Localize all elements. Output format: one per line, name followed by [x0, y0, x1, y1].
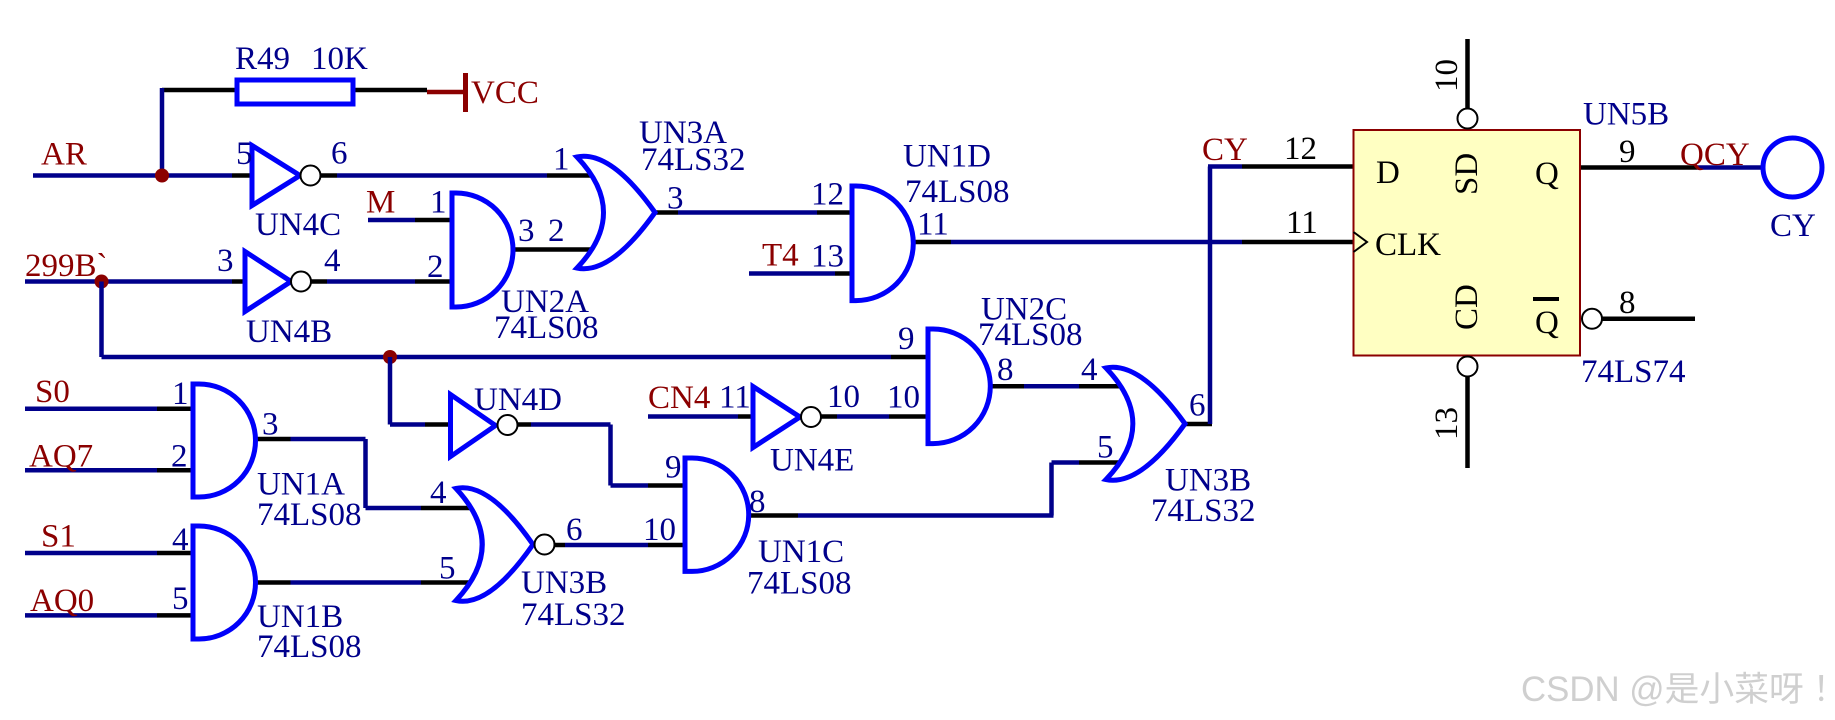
bubble UN4C [301, 166, 321, 186]
wire junction down to UN4D [388, 357, 393, 425]
wire UN1A out to UN3B [366, 506, 422, 511]
wire UN4B out [327, 279, 415, 284]
svg-text:Q: Q [1535, 305, 1559, 341]
pin stub UN2A pin1 [415, 218, 458, 223]
svg-text:6: 6 [566, 512, 583, 548]
pin stub UN1D pin12 [817, 210, 858, 215]
wire UN2A pin3 to UN3A pin2 [513, 247, 612, 252]
svg-text:3: 3 [262, 407, 279, 443]
svg-text:74LS08: 74LS08 [494, 310, 599, 346]
wire resistor right (black) [353, 88, 427, 93]
watermark glyph 菜 [1735, 672, 1767, 704]
svg-text:UN4D: UN4D [474, 382, 562, 418]
svg-text:2: 2 [427, 249, 444, 285]
wire to VCC (dark red) [427, 90, 464, 95]
svg-text:5: 5 [172, 581, 189, 617]
pin stub UN3B pin6 [1185, 422, 1212, 427]
svg-text:74LS08: 74LS08 [257, 629, 362, 665]
pin stub UN4E out [821, 414, 837, 419]
svg-text:10: 10 [643, 512, 676, 548]
Qbar overline [1533, 297, 1559, 301]
svg-text:CY: CY [1770, 208, 1816, 244]
junction AR-resistor [155, 169, 169, 183]
svg-text:13: 13 [811, 239, 844, 275]
svg-text:T4: T4 [762, 238, 799, 274]
svg-text:CY: CY [1202, 132, 1248, 168]
flip-flop UN5B 74LS74 body [1354, 130, 1581, 356]
wire CY vertical [1208, 167, 1213, 425]
svg-text:11: 11 [719, 380, 751, 416]
pin stub UN2C pin8 [990, 384, 1024, 389]
svg-text:74LS08: 74LS08 [905, 174, 1010, 210]
wire UN1C out right [798, 513, 1054, 518]
bubble UN4D [498, 415, 518, 435]
and-gate UN2A [452, 193, 513, 307]
pin stub UN1B pin4 [157, 551, 203, 556]
svg-text:UN5B: UN5B [1583, 97, 1669, 133]
svg-text:12: 12 [811, 177, 844, 213]
wire UN1A out down [363, 439, 368, 508]
wire FF CD pin bottom [1465, 377, 1470, 468]
pin stub UN1A pin3 [256, 437, 291, 442]
pin stub FF CLK pin11 [1242, 240, 1360, 245]
svg-text:AQ7: AQ7 [29, 439, 93, 475]
wire S0 [25, 406, 157, 411]
svg-text:3: 3 [217, 243, 234, 279]
svg-text:QCY: QCY [1680, 137, 1750, 173]
and-gate UN1A [193, 384, 256, 497]
wire AR [33, 173, 232, 178]
wire AQ0 [25, 613, 157, 618]
svg-text:10: 10 [887, 380, 920, 416]
bubble UN4E [801, 407, 821, 427]
svg-text:4: 4 [1081, 352, 1098, 388]
wire CY to D [1208, 164, 1242, 169]
or-gate UN3B left [456, 488, 533, 601]
svg-text:4: 4 [172, 522, 189, 558]
svg-text:3: 3 [667, 181, 684, 217]
svg-text:CLK: CLK [1375, 227, 1441, 263]
wire vertical 299B` down [99, 282, 104, 358]
wire long horizontal to UN2C [102, 355, 892, 360]
wire to UN4D input [390, 422, 425, 427]
svg-text:1: 1 [430, 185, 447, 221]
svg-text:5: 5 [439, 551, 456, 587]
pin stub UN1D pin11 [913, 240, 951, 245]
wire UN1C out to UN3B [1052, 460, 1080, 465]
wire resistor left (black) [162, 88, 237, 93]
port CY circle [1763, 138, 1822, 197]
wire vertical AR junction to resistor [160, 88, 165, 173]
resistor R49 [237, 80, 353, 104]
svg-text:9: 9 [898, 321, 915, 357]
pin stub UN1C pin10 [648, 543, 694, 548]
wire vertical UN1C out up [1049, 463, 1054, 516]
svg-text:8: 8 [997, 352, 1014, 388]
svg-text:74LS08: 74LS08 [978, 317, 1083, 353]
pin stub UN1B pin6 [256, 580, 291, 585]
svg-text:UN4C: UN4C [255, 207, 341, 243]
svg-text:6: 6 [331, 136, 348, 172]
svg-text:1: 1 [553, 142, 570, 178]
or-gate UN3A [577, 156, 655, 268]
pin stub UN3B left pin5 [421, 580, 492, 585]
svg-text:9: 9 [1619, 134, 1636, 170]
svg-text:3: 3 [518, 213, 535, 249]
svg-text:R49: R49 [235, 41, 290, 77]
svg-text:AR: AR [41, 137, 87, 173]
wire S1 [25, 551, 157, 556]
pin stub UN3A pin3 [655, 210, 678, 215]
svg-text:74LS32: 74LS32 [1151, 493, 1256, 529]
pin stub UN3B left pin6 [555, 543, 566, 548]
pin stub UN2A pin2 [415, 279, 458, 284]
svg-text:10: 10 [827, 379, 860, 415]
svg-text:11: 11 [917, 207, 949, 243]
wire UN3A out to UN1D [678, 210, 817, 215]
inverter UN4B [245, 252, 291, 312]
svg-text:10K: 10K [311, 41, 368, 77]
svg-text:2: 2 [548, 213, 565, 249]
pin stub FF D pin12 [1242, 164, 1360, 169]
pin stub UN1A pin2 [157, 468, 203, 473]
svg-text:10: 10 [1429, 59, 1465, 92]
svg-text:8: 8 [1619, 285, 1636, 321]
pin stub UN3B pin4 [1079, 384, 1140, 389]
svg-text:2: 2 [171, 439, 188, 475]
bubble FF CD [1458, 357, 1478, 377]
svg-text:VCC: VCC [471, 75, 539, 111]
watermark glyph 是 [1666, 673, 1698, 704]
pin stub UN3B pin5 [1079, 460, 1140, 465]
inverter UN4D [451, 395, 496, 457]
svg-text:74LS74: 74LS74 [1581, 354, 1686, 390]
svg-text:299B`: 299B` [25, 248, 108, 284]
wire AQ7 [25, 468, 157, 473]
svg-text:UN3B: UN3B [521, 565, 607, 601]
wire UN1D out to CLK [951, 240, 1242, 245]
svg-text:4: 4 [430, 475, 447, 511]
pin stub UN1C pin9 [648, 483, 694, 488]
pin stub FF Q pin9 [1580, 165, 1697, 170]
svg-text:8: 8 [749, 484, 766, 520]
svg-text:UN4B: UN4B [246, 314, 332, 350]
svg-text:M: M [366, 185, 395, 221]
svg-text:SD: SD [1449, 153, 1485, 195]
pin stub UN4D in [425, 422, 458, 427]
wire M [368, 218, 415, 223]
wire UN1B out [291, 580, 422, 585]
svg-text:11: 11 [1286, 205, 1318, 241]
pin stub UN1A pin1 [157, 406, 203, 411]
and-gate UN1B [193, 526, 256, 639]
wire QCY to CY port [1697, 165, 1763, 170]
watermark glyph 呀 [1772, 673, 1803, 703]
svg-text:UN1D: UN1D [903, 139, 991, 175]
svg-text:12: 12 [1284, 131, 1317, 167]
pin stub UN4B pin3 [232, 279, 249, 284]
bubble FF SD [1458, 109, 1478, 129]
pin stub UN1B pin5 [157, 613, 203, 618]
svg-text:4: 4 [324, 243, 341, 279]
wire UN4D out right [531, 422, 611, 427]
wire UN1A out right [291, 437, 366, 442]
svg-text:9: 9 [665, 450, 682, 486]
svg-text:CD: CD [1449, 284, 1485, 330]
pin stub UN4B pin4 [311, 279, 327, 284]
power symbol VCC bar [463, 73, 468, 112]
pin stub UN1C pin8 [749, 513, 798, 518]
wire FF Qbar pin8 [1603, 316, 1696, 321]
wire UN4D out to UN1C [611, 483, 649, 488]
inverter UN4C [252, 146, 300, 206]
svg-text:CN4: CN4 [648, 380, 710, 416]
inverter UN4E [753, 387, 800, 448]
svg-text:74LS32: 74LS32 [521, 597, 626, 633]
svg-text:D: D [1376, 155, 1400, 191]
or-gate UN3B right [1106, 367, 1185, 480]
wire UN4D out down [608, 425, 613, 486]
wire UN2C out [1024, 384, 1079, 389]
wire FF SD pin top [1465, 39, 1470, 109]
pin stub UN4E pin11 [738, 414, 760, 419]
svg-text:74LS08: 74LS08 [257, 497, 362, 533]
watermark glyph 小 [1701, 672, 1734, 704]
svg-text:S0: S0 [35, 374, 70, 410]
svg-text:1: 1 [172, 376, 189, 412]
svg-text:S1: S1 [41, 519, 76, 555]
svg-text:5: 5 [236, 136, 253, 172]
and-gate UN1C [685, 458, 749, 571]
svg-text:74LS32: 74LS32 [641, 142, 746, 178]
bubble FF Qbar [1582, 309, 1602, 329]
pin stub UN1D pin13 [835, 271, 858, 276]
wire T4 [749, 271, 835, 276]
wire CN4 [648, 414, 738, 419]
pin stub UN2C pin10 [889, 414, 938, 419]
pin stub UN4D out [517, 422, 531, 427]
svg-text:6: 6 [1189, 388, 1206, 424]
pin stub UN2C pin9 [891, 355, 938, 360]
pin stub UN4C pin5 [232, 173, 256, 178]
junction long wire [383, 350, 397, 364]
junction 299B` [95, 275, 109, 289]
svg-text:AQ0: AQ0 [30, 583, 94, 619]
bubble UN3B left output [535, 535, 555, 555]
and-gate UN1D [852, 186, 913, 301]
bubble UN4B [291, 272, 311, 292]
wire UN3B out to UN1C [565, 543, 648, 548]
svg-text:UN4E: UN4E [770, 443, 854, 479]
pin stub UN4C pin6 [321, 173, 338, 178]
pin stub UN3B left pin4 [421, 506, 492, 511]
svg-text:CSDN @: CSDN @ [1521, 670, 1665, 709]
svg-text:13: 13 [1429, 407, 1465, 440]
watermark glyph ！ [1819, 675, 1823, 701]
and-gate UN2C [928, 329, 990, 444]
svg-text:5: 5 [1097, 430, 1114, 466]
wire 299B` [25, 279, 232, 284]
svg-text:Q: Q [1535, 156, 1559, 192]
pin stub UN3A pin1 [547, 173, 612, 178]
clock triangle [1354, 232, 1368, 252]
wire UN4C out to UN3A [337, 173, 547, 178]
svg-text:74LS08: 74LS08 [747, 566, 852, 602]
wire UN4E out [837, 414, 889, 419]
